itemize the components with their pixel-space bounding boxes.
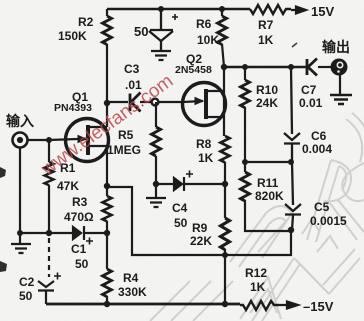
node R5/C4/ground	[153, 181, 159, 187]
svg-text:R9: R9	[192, 221, 208, 235]
svg-text:输出: 输出	[322, 39, 350, 55]
svg-text:R12: R12	[245, 266, 267, 280]
scan mark left edge	[0, 167, 6, 178]
svg-text:R10: R10	[256, 83, 278, 97]
svg-text:24K: 24K	[256, 96, 278, 110]
resistor R10	[244, 67, 246, 80]
svg-text:1K: 1K	[198, 151, 214, 165]
svg-text:C6: C6	[311, 129, 327, 143]
output jack	[331, 59, 348, 76]
plus sign C1	[86, 238, 93, 245]
svg-text:820K: 820K	[255, 189, 284, 203]
resistor R5	[155, 102, 157, 127]
capacitor C3	[130, 93, 141, 112]
svg-text:50: 50	[19, 289, 33, 303]
feedback wire to Q1 source	[108, 187, 291, 255]
svg-text:R4: R4	[123, 271, 139, 285]
svg-text:R7: R7	[258, 18, 274, 32]
capacitor C6	[284, 67, 300, 162]
capacitor 50uF (top bypass)	[149, 9, 173, 50]
svg-text:C3: C3	[124, 62, 140, 76]
wire node to C3	[107, 101, 128, 103]
svg-text:C5: C5	[314, 200, 330, 214]
transistor Q2 2N5458	[183, 83, 226, 126]
+15V arrow	[291, 7, 306, 14]
node R8/C4/R9	[222, 181, 228, 187]
capacitor C1	[73, 226, 107, 240]
resistor R8	[223, 117, 225, 136]
ground under 50uF	[151, 51, 171, 60]
resistor R11	[244, 162, 246, 172]
svg-text:22K: 22K	[190, 234, 212, 248]
resistor R12 (horizontal)	[240, 301, 279, 310]
svg-text:R8: R8	[196, 137, 212, 151]
node feedback crossing R9 line	[222, 252, 228, 258]
svg-text:50: 50	[134, 24, 148, 39]
svg-text:47K: 47K	[57, 179, 79, 193]
plus sign C4	[186, 171, 193, 178]
bottom rail	[46, 303, 240, 306]
svg-text:R6: R6	[196, 17, 212, 31]
gray watermark lower chevrons	[240, 249, 360, 321]
svg-text:C1: C1	[71, 242, 87, 256]
node at rail / bypass cap 50	[158, 6, 164, 12]
Q2 drain wire up	[223, 67, 225, 117]
capacitor C2	[38, 281, 54, 304]
node input/R1	[46, 137, 52, 143]
svg-text:C2: C2	[19, 275, 35, 289]
wire R10 bottom to C6 column	[245, 161, 291, 163]
svg-text:1K: 1K	[258, 33, 274, 47]
svg-text:R2: R2	[78, 15, 94, 29]
gray watermark right-edge arcs	[342, 113, 364, 201]
dashed wire to C2	[48, 238, 50, 277]
svg-text:15V: 15V	[311, 4, 334, 19]
svg-text:1K: 1K	[250, 280, 266, 294]
plus sign C2	[54, 273, 61, 280]
wire C3 to Q2 gate	[140, 101, 183, 103]
svg-text:0.0015: 0.0015	[310, 214, 347, 228]
svg-text:2N5458: 2N5458	[175, 64, 212, 76]
svg-text:R11: R11	[257, 176, 279, 190]
svg-text:0.004: 0.004	[302, 142, 332, 156]
Q1 source node	[106, 146, 108, 186]
gray watermark small chevrons	[302, 219, 338, 252]
svg-text:50: 50	[75, 257, 89, 271]
node C5/R11 bottom	[288, 227, 294, 233]
transistor Q1 PN4393	[49, 119, 109, 162]
plus sign	[172, 14, 178, 20]
resistor R4	[106, 233, 108, 269]
-15V arrow	[279, 302, 298, 309]
svg-text:50: 50	[174, 216, 188, 230]
svg-text:10K: 10K	[197, 33, 219, 47]
resistor R3	[106, 186, 108, 196]
svg-text:输入: 输入	[6, 113, 34, 129]
resistor R7 (horizontal, in rail)	[250, 5, 291, 14]
wire jack sleeve down	[19, 148, 21, 233]
input jack	[13, 133, 28, 148]
wire jack to gate node	[28, 139, 49, 141]
node output line Q2	[221, 64, 227, 70]
resistor R1	[48, 140, 50, 162]
resistor R9	[224, 184, 226, 218]
svg-text:470Ω: 470Ω	[64, 210, 94, 224]
gray watermark letter n	[230, 206, 292, 267]
capacitor C5	[285, 162, 301, 230]
resistor R6	[218, 16, 227, 45]
capacitor C4	[156, 177, 225, 191]
ground under output jack	[330, 95, 352, 104]
node C6 column	[288, 64, 294, 70]
svg-text:330K: 330K	[118, 285, 147, 299]
svg-text:R5: R5	[118, 128, 134, 142]
resistor R2	[103, 16, 112, 45]
svg-text:0.01: 0.01	[299, 96, 323, 110]
svg-text:–15V: –15V	[303, 299, 334, 314]
svg-text:R3: R3	[72, 195, 88, 209]
node rail R6	[219, 6, 225, 12]
svg-text:C4: C4	[172, 201, 188, 215]
node R10	[242, 64, 248, 70]
svg-text:PN4393: PN4393	[54, 102, 92, 114]
top supply rail wire	[107, 8, 250, 11]
node R3/C1/R4	[104, 230, 110, 236]
jack ground wire	[339, 75, 341, 94]
node R5 top	[152, 99, 159, 106]
output wire	[224, 66, 306, 69]
ground symbol left	[11, 233, 31, 253]
svg-text:1MEG: 1MEG	[107, 143, 141, 157]
wire C7 to jack	[318, 66, 331, 68]
svg-text:C7: C7	[301, 83, 317, 97]
gray watermark strokes bottom-left	[150, 113, 364, 321]
node C3/R2/Q1 drain	[106, 103, 108, 127]
ground wire bottom left	[20, 232, 73, 234]
svg-text:150K: 150K	[58, 29, 87, 43]
ground under R5	[146, 184, 166, 207]
capacitor C7	[307, 59, 317, 76]
scan tick mark	[292, 43, 297, 47]
gray watermark letter R	[307, 160, 364, 242]
